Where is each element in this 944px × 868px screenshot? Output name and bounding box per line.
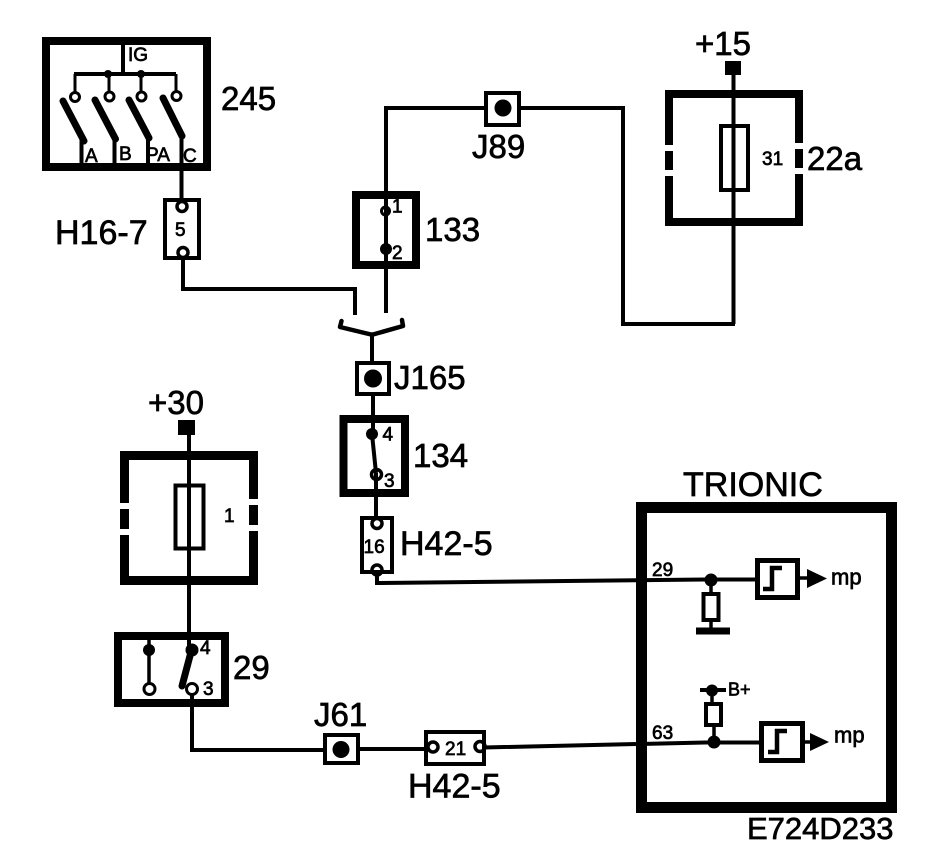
svg-text:31: 31 — [762, 149, 783, 170]
output arrow (pin 29) — [798, 576, 808, 580]
wire relay to J61 — [192, 694, 325, 750]
splice J61 — [325, 735, 358, 763]
fuse 31 — [721, 126, 748, 190]
svg-text:29: 29 — [652, 560, 673, 581]
svg-text:3: 3 — [384, 471, 395, 492]
wire +15 through fuse 31 — [732, 75, 736, 324]
junction merge symbol — [340, 320, 403, 335]
ground — [696, 628, 730, 635]
svg-text:mp: mp — [831, 565, 862, 590]
splice J165 — [357, 363, 389, 394]
svg-text:+15: +15 — [695, 25, 751, 62]
junction node pin63 — [708, 736, 721, 749]
svg-text:3: 3 — [203, 679, 214, 700]
svg-text:B+: B+ — [728, 680, 751, 700]
fuse box 22a (dashed) — [669, 94, 799, 222]
box 133 — [356, 195, 416, 265]
fuse 1 — [176, 486, 204, 549]
svg-text:H16-7: H16-7 — [55, 214, 148, 252]
svg-text:mp: mp — [834, 723, 865, 748]
svg-text:B: B — [119, 144, 132, 165]
TRIONIC ECU box — [642, 508, 892, 808]
svg-text:J89: J89 — [472, 128, 525, 165]
svg-text:IG: IG — [128, 45, 148, 66]
B+ terminal — [700, 688, 726, 692]
svg-text:TRIONIC: TRIONIC — [683, 466, 823, 504]
schmitt trigger 63 — [762, 724, 803, 761]
wire J61 to H42-5 21 — [358, 747, 426, 751]
svg-text:245: 245 — [221, 80, 276, 117]
svg-text:4: 4 — [200, 638, 211, 659]
svg-text:2: 2 — [392, 243, 403, 264]
connector H42-5 pin 16 — [362, 518, 392, 575]
svg-text:21: 21 — [445, 739, 466, 760]
wire H16-7 to junction — [183, 256, 355, 315]
svg-text:1: 1 — [392, 197, 403, 218]
svg-text:63: 63 — [652, 723, 673, 744]
wire 245 pin C to H16-7 — [180, 135, 184, 200]
splice J89 — [486, 93, 519, 125]
wire 133 pin2 to junction — [384, 249, 388, 313]
svg-text:134: 134 — [413, 437, 468, 474]
svg-text:16: 16 — [364, 537, 385, 558]
svg-text:PA: PA — [146, 145, 170, 166]
svg-text:29: 29 — [233, 649, 270, 686]
svg-text:E724D233: E724D233 — [747, 811, 894, 846]
svg-text:133: 133 — [425, 211, 480, 248]
fuse box 1 (dashed) — [125, 456, 254, 581]
svg-text:+30: +30 — [148, 384, 204, 421]
wire H42-5 16 to TRIONIC pin 29 — [377, 572, 757, 583]
svg-text:4: 4 — [383, 425, 394, 446]
wire 133 pin1 up and right through J89 to 22a — [386, 108, 484, 211]
svg-text:1: 1 — [224, 506, 235, 527]
ignition switch 245 — [46, 37, 207, 167]
svg-text:H42-5: H42-5 — [408, 768, 501, 806]
wire H42-5 21 to TRIONIC pin 63 — [484, 743, 761, 748]
connector H16-7 pin 5 — [165, 200, 199, 258]
wire junction to J165 — [370, 334, 374, 363]
output arrow (pin 63) — [802, 740, 811, 744]
svg-text:5: 5 — [175, 220, 186, 241]
relay 29 — [118, 636, 225, 703]
wire +30 through fuse 1 to relay — [187, 435, 191, 650]
svg-text:A: A — [85, 146, 98, 167]
schmitt trigger 29 — [758, 561, 798, 598]
wire 134 pin3 to H42-5 — [374, 473, 378, 519]
resistor to B+ — [710, 690, 714, 704]
svg-text:22a: 22a — [807, 140, 863, 177]
junction node pin29 — [705, 574, 718, 587]
svg-text:C: C — [183, 146, 197, 167]
box 134 — [344, 419, 406, 493]
resistor pulldown — [709, 580, 713, 594]
svg-text:J61: J61 — [314, 696, 367, 733]
wire J165 to 134 — [371, 394, 375, 433]
svg-text:J165: J165 — [394, 359, 466, 396]
connector H42-5 pin 21 — [426, 732, 485, 764]
svg-text:H42-5: H42-5 — [400, 525, 493, 563]
